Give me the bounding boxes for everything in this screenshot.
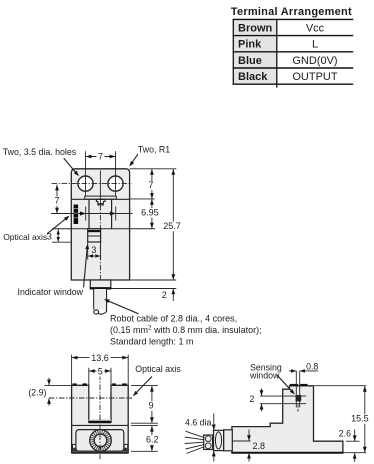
svg-text:window: window [249,370,280,380]
svg-text:3: 3 [91,245,96,255]
svg-text:Robot cable of 2.8 dia., 4 cor: Robot cable of 2.8 dia., 4 cores, [110,313,237,323]
svg-text:6.2: 6.2 [146,435,159,445]
svg-text:(0.15 mm2 with 0.8 mm dia. ins: (0.15 mm2 with 0.8 mm dia. insulator); [110,325,262,335]
svg-text:Blue: Blue [238,55,262,67]
svg-text:Brown: Brown [238,22,273,34]
svg-text:2.8: 2.8 [253,441,266,451]
svg-text:2.6: 2.6 [339,429,351,439]
svg-text:7: 7 [54,196,59,206]
svg-text:Indicator window: Indicator window [18,287,84,297]
svg-text:15.5: 15.5 [351,414,369,424]
svg-text:Vcc: Vcc [306,22,325,34]
svg-text:Standard length: 1 m: Standard length: 1 m [110,336,194,346]
svg-text:7: 7 [98,151,103,161]
svg-text:Terminal Arrangement: Terminal Arrangement [231,6,352,18]
svg-text:Black: Black [238,71,268,83]
svg-text:0.8: 0.8 [306,361,318,371]
svg-text:9: 9 [148,401,153,411]
svg-text:2: 2 [162,290,167,300]
svg-text:7: 7 [148,180,153,190]
svg-text:GND(0V): GND(0V) [292,55,337,67]
svg-text:13.6: 13.6 [91,353,109,363]
svg-text:2: 2 [249,394,254,404]
svg-text:5: 5 [98,366,103,376]
svg-text:Two, 3.5 dia. holes: Two, 3.5 dia. holes [3,147,77,157]
svg-text:Pink: Pink [238,39,262,51]
svg-text:(2.9): (2.9) [28,388,46,398]
svg-text:4.6 dia.: 4.6 dia. [185,417,214,427]
svg-text:Two, R1: Two, R1 [138,144,170,154]
svg-text:OUTPUT: OUTPUT [292,71,338,83]
svg-text:25.7: 25.7 [163,221,181,231]
svg-text:Optical axis: Optical axis [135,364,181,374]
svg-text:6.95: 6.95 [141,207,159,217]
svg-text:L: L [312,39,318,51]
svg-text:Optical axis: Optical axis [3,232,47,242]
